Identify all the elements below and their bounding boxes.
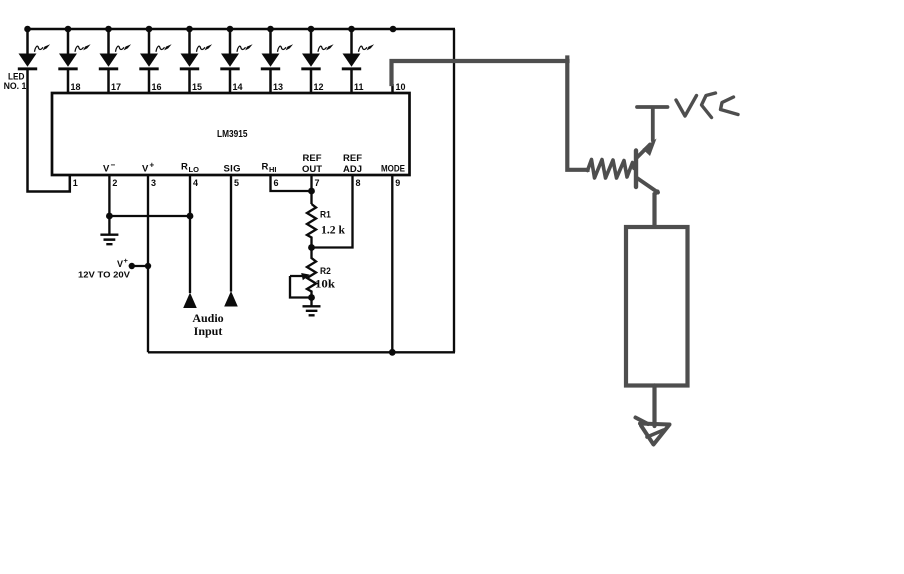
label VCC (hand-written) (676, 93, 738, 118)
ground (R2) (303, 306, 321, 315)
svg-text:15: 15 (192, 82, 202, 92)
pin label REF OUT (pin 7) (302, 153, 322, 175)
svg-text:HI: HI (269, 165, 277, 174)
wire: pin 3 (V+) down to bottom rail (147, 176, 149, 352)
svg-text:V: V (117, 259, 123, 269)
LED LED NO. 1 (18, 28, 50, 70)
svg-text:13: 13 (273, 82, 283, 92)
wire: pin 2 (V-) down to ground node (108, 176, 110, 234)
resistor R2 (pot) (307, 248, 316, 298)
pin label SIG (pin 5) (224, 164, 241, 175)
wire: load to ground arrow (grey) (652, 386, 656, 427)
wire: top LED anode rail (27, 28, 456, 30)
svg-text:12: 12 (314, 82, 324, 92)
svg-text:R1: R1 (320, 210, 331, 221)
svg-text:Input: Input (194, 324, 223, 338)
label V+ 12V TO 20V (78, 256, 130, 280)
svg-text:R2: R2 (320, 266, 331, 277)
wire: hand-drawn pin10 to transistor base (grey) (392, 58, 588, 170)
svg-text:LO: LO (189, 165, 200, 174)
svg-text:18: 18 (71, 82, 81, 92)
svg-text:NO. 1: NO. 1 (4, 81, 27, 91)
pin label RHI (pin 6) (262, 162, 277, 175)
svg-text:9: 9 (395, 178, 400, 188)
wire: R2 to ground (310, 298, 312, 307)
svg-text:−: − (111, 161, 116, 170)
pin label REF ADJ (pin 8) (343, 153, 362, 175)
svg-text:16: 16 (152, 82, 162, 92)
svg-text:6: 6 (274, 178, 279, 188)
junction dot pin7/RHI (308, 188, 315, 195)
svg-text:14: 14 (233, 82, 243, 92)
ground arrow (hand-drawn) (636, 418, 670, 445)
LED LED 4 (139, 28, 171, 70)
pin label V- (pin 2) (103, 161, 116, 175)
wire: pin 9 (MODE) down to bottom rail (391, 176, 393, 352)
resistor RB (hand-drawn base resistor) (588, 160, 637, 179)
R2 wiper arm (290, 273, 312, 298)
wire: V+ supply tap (129, 263, 152, 269)
load resistor block (hand-drawn rectangle) (626, 227, 688, 386)
ground (V-) (100, 235, 118, 245)
pin numbers 1-9 (bottom) (73, 178, 401, 188)
audio input terminal (SIG) (224, 291, 238, 307)
audio input terminal (RLO) (183, 293, 197, 309)
wire: pin 7 (REF OUT) down to R1 (310, 176, 312, 204)
svg-text:1.2 k: 1.2 k (321, 223, 345, 237)
wire: LED 8 cathode to pin 12 (310, 70, 313, 94)
svg-text:1: 1 (73, 178, 78, 188)
LED LED 7 (261, 28, 293, 70)
transistor Q1 (hand-drawn PNP) (636, 139, 658, 193)
wire: bottom V+ rail (148, 351, 455, 353)
svg-text:ADJ: ADJ (343, 164, 362, 175)
wire: pin 10 stub (391, 84, 394, 93)
pin label RLO (pin 4) (181, 162, 199, 175)
wire: node V- to RLO (109, 215, 190, 217)
LED LED 3 (99, 28, 131, 70)
svg-text:R: R (181, 162, 188, 173)
junction dots on anode rail (24, 26, 396, 33)
svg-text:3: 3 (151, 178, 156, 188)
LED LED 8 (301, 28, 333, 70)
svg-text:17: 17 (111, 82, 121, 92)
svg-text:REF: REF (303, 153, 322, 164)
VCC supply bar (637, 107, 668, 141)
label R2 10k (315, 266, 335, 291)
svg-text:7: 7 (315, 178, 320, 188)
wire: LED 2 cathode to pin 18 (67, 70, 70, 94)
wire: R1 bottom to pin 8 (REF ADJ) (312, 176, 353, 248)
junction dot RLO (187, 213, 194, 220)
resistor R1 (307, 204, 316, 248)
wire: collector to load (grey) (655, 192, 658, 228)
svg-text:11: 11 (354, 82, 364, 92)
wire: LED NO.1 cathode down to pin 1 jog (28, 70, 70, 192)
pin label V+ (pin 3) (142, 161, 155, 175)
svg-text:V: V (103, 164, 110, 175)
svg-text:OUT: OUT (302, 164, 322, 175)
svg-text:10: 10 (396, 82, 406, 92)
LED LED 6 (220, 28, 252, 70)
wire: LED 4 cathode to pin 16 (148, 70, 151, 94)
svg-text:Audio: Audio (192, 311, 223, 325)
op-amp U1 LM3915 IC body (52, 93, 410, 175)
svg-text:5: 5 (234, 178, 239, 188)
pin numbers 18-10 (top) (71, 82, 406, 92)
svg-text:LM3915: LM3915 (217, 129, 248, 140)
LED LED 5 (180, 28, 212, 70)
wire: LED 7 cathode to pin 13 (269, 70, 272, 94)
junction dot pin2/gnd (106, 213, 113, 220)
wire: pin 5 (SIG) down to audio input (230, 176, 232, 292)
svg-text:2: 2 (112, 178, 117, 188)
svg-text:LED: LED (8, 72, 25, 82)
label R1 1.2 k (320, 210, 345, 237)
pin label MODE (pin 9) (381, 164, 405, 175)
svg-text:MODE: MODE (381, 164, 405, 175)
svg-text:8: 8 (356, 178, 361, 188)
wire: LED 9 cathode to pin 11 (350, 70, 353, 94)
svg-text:10k: 10k (315, 277, 335, 291)
svg-text:+: + (150, 161, 155, 170)
svg-text:R: R (262, 162, 269, 173)
wire: LED 6 cathode to pin 14 (229, 70, 232, 94)
wire: right side vertical (V+ loop) (453, 29, 455, 352)
svg-text:REF: REF (343, 153, 362, 164)
label LED NO. 1 (4, 72, 27, 92)
junction dot R2 bottom (308, 294, 315, 301)
wire: LED 5 cathode to pin 15 (188, 70, 191, 94)
LED LED 2 (58, 28, 90, 70)
junction dot MODE/bottom rail (389, 349, 396, 356)
label Audio Input (192, 311, 223, 338)
svg-text:12V TO 20V: 12V TO 20V (78, 270, 130, 280)
svg-text:SIG: SIG (224, 164, 241, 175)
svg-text:4: 4 (193, 178, 198, 188)
junction dot R1/R2/pin8 (308, 244, 315, 251)
wire: pin 6 (RHI) to pin 7 node (271, 176, 312, 191)
svg-text:V: V (142, 164, 149, 175)
svg-text:+: + (124, 256, 129, 265)
LED LED 9 (342, 28, 374, 70)
wire: LED 3 cathode to pin 17 (107, 70, 110, 94)
wire: pin 4 (RLO) down to audio input (189, 176, 191, 293)
